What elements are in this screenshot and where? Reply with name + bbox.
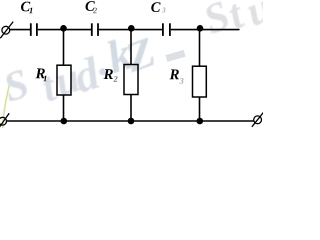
label R1 <box>34 66 47 83</box>
wire R3 to bottom rail <box>199 97 201 121</box>
wire node2 down to R2 <box>130 30 132 65</box>
junction node A' (bottom, under R1) <box>61 118 68 125</box>
label C2 <box>85 0 98 15</box>
junction node A (top, after C1) <box>60 25 67 32</box>
label R2 <box>102 67 118 84</box>
svg-text:1: 1 <box>43 73 47 83</box>
terminal output (bottom right) <box>254 116 262 124</box>
label R3 <box>168 67 184 86</box>
junction node C (top, after C3) <box>197 25 204 32</box>
junction node B' (bottom, under R2) <box>128 118 135 125</box>
resistor R2 <box>124 65 138 95</box>
wire C3 to open end <box>171 29 240 31</box>
svg-text:3: 3 <box>161 5 166 14</box>
svg-text:1: 1 <box>29 5 33 15</box>
label C3 <box>151 0 166 16</box>
resistor R3 <box>193 66 207 97</box>
junction node B (top, after C2) <box>128 25 135 32</box>
watermark text Stu (second instance, top right) <box>198 0 279 44</box>
wire C1 to C2 <box>38 29 91 31</box>
label C1 <box>20 0 33 15</box>
junction node C' (bottom, under R3) <box>197 118 204 125</box>
terminal input (top left) <box>2 26 10 34</box>
svg-text:R: R <box>102 67 113 83</box>
capacitor C3 <box>162 23 164 36</box>
wire node1 down to R1 <box>63 30 65 66</box>
watermark text Stud.kz <box>0 28 162 112</box>
capacitor C2 <box>91 23 93 36</box>
svg-text:2: 2 <box>92 5 98 15</box>
wire node3 down to R3 <box>199 30 201 67</box>
wire R2 to bottom rail <box>130 95 132 122</box>
svg-text:3: 3 <box>178 76 184 86</box>
wire C2 to C3 <box>99 29 162 31</box>
resistor R1 <box>57 65 71 95</box>
bottom rail wire <box>7 120 254 122</box>
svg-text:C: C <box>151 0 161 16</box>
wire R1 to bottom rail <box>63 95 65 121</box>
watermark arc (yellow-green) <box>3 77 12 128</box>
capacitor C1 <box>30 23 32 36</box>
watermark dash <box>165 50 185 62</box>
svg-text:2: 2 <box>112 74 118 84</box>
wire top rail: terminal to C1 <box>10 29 30 31</box>
svg-text:R: R <box>168 67 179 83</box>
terminal common (bottom left) <box>0 117 7 125</box>
